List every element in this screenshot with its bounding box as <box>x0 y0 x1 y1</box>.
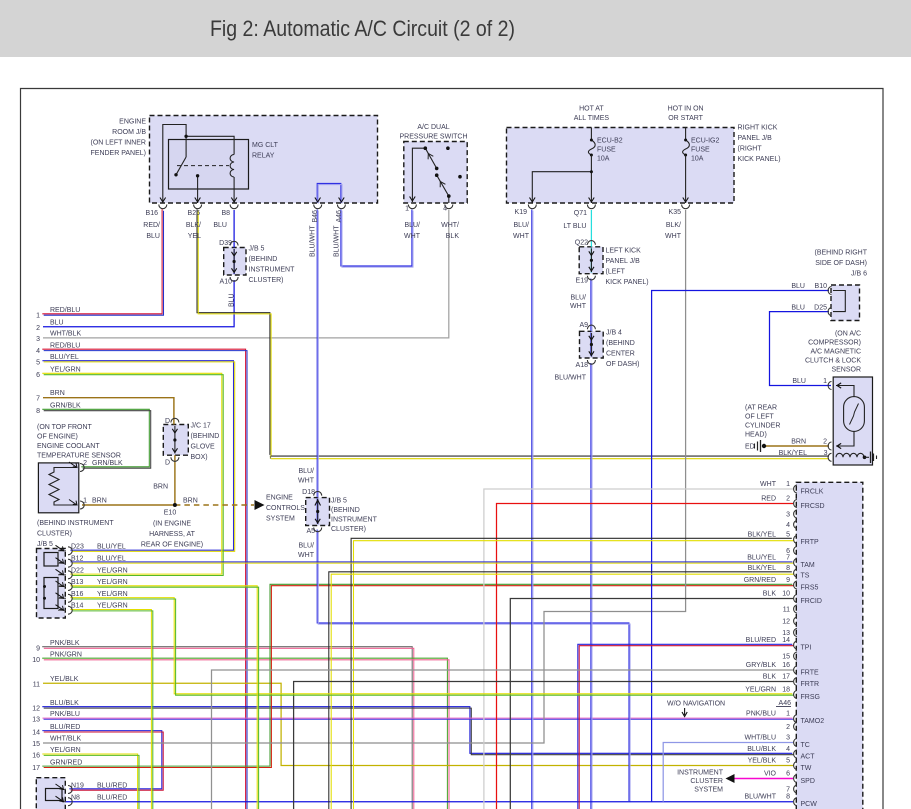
svg-text:GRN/RED: GRN/RED <box>50 759 82 766</box>
svg-text:17: 17 <box>782 674 790 681</box>
svg-text:Q71: Q71 <box>574 210 587 217</box>
svg-text:4: 4 <box>443 206 447 213</box>
svg-text:7: 7 <box>786 787 790 794</box>
svg-text:RED/: RED/ <box>143 222 160 229</box>
svg-text:GRN/RED: GRN/RED <box>744 577 776 584</box>
svg-text:(BEHIND: (BEHIND <box>249 256 278 263</box>
svg-text:D18: D18 <box>302 489 315 496</box>
svg-text:2: 2 <box>823 439 827 446</box>
svg-text:HARNESS, AT: HARNESS, AT <box>149 531 195 538</box>
svg-text:J/C 17: J/C 17 <box>191 423 211 430</box>
svg-text:13: 13 <box>782 630 790 637</box>
svg-text:10A: 10A <box>691 156 704 163</box>
svg-text:1: 1 <box>823 378 827 385</box>
svg-text:N19: N19 <box>71 783 84 790</box>
svg-text:B13: B13 <box>71 579 84 586</box>
svg-text:WHT: WHT <box>665 233 682 240</box>
svg-text:WHT/: WHT/ <box>441 222 459 229</box>
svg-text:FRTE: FRTE <box>801 670 819 677</box>
svg-text:B10: B10 <box>815 283 828 290</box>
svg-text:BLU: BLU <box>791 283 805 290</box>
svg-text:Fig 2: Automatic A/C Circuit (: Fig 2: Automatic A/C Circuit (2 of 2) <box>210 16 515 41</box>
svg-text:BLU/RED: BLU/RED <box>746 637 776 644</box>
svg-text:BLU: BLU <box>791 305 805 312</box>
svg-text:ACT: ACT <box>801 754 816 761</box>
svg-text:A9: A9 <box>579 322 588 329</box>
svg-text:YEL/GRN: YEL/GRN <box>97 579 128 586</box>
svg-text:(RIGHT: (RIGHT <box>738 146 763 153</box>
svg-text:BLK: BLK <box>446 233 460 240</box>
svg-text:SPD: SPD <box>801 778 815 785</box>
svg-text:A/C MAGNETIC: A/C MAGNETIC <box>810 349 861 356</box>
svg-text:BLU: BLU <box>229 293 236 307</box>
svg-text:10: 10 <box>782 591 790 598</box>
svg-text:5: 5 <box>786 532 790 539</box>
svg-text:1: 1 <box>83 498 87 505</box>
svg-text:RELAY: RELAY <box>252 153 275 160</box>
svg-text:4: 4 <box>786 522 790 529</box>
svg-text:OF ENGINE): OF ENGINE) <box>37 434 78 441</box>
svg-text:3: 3 <box>786 512 790 519</box>
svg-text:YEL/GRN: YEL/GRN <box>50 367 81 374</box>
svg-text:(BEHIND: (BEHIND <box>331 507 360 514</box>
svg-text:KICK PANEL): KICK PANEL) <box>738 156 781 163</box>
svg-text:16: 16 <box>32 753 40 760</box>
svg-text:RED/BLU: RED/BLU <box>50 342 80 349</box>
svg-text:INSTRUMENT: INSTRUMENT <box>331 517 378 524</box>
svg-text:BLK: BLK <box>763 674 777 681</box>
svg-text:SYSTEM: SYSTEM <box>694 787 723 794</box>
svg-text:OF LEFT: OF LEFT <box>745 414 775 421</box>
svg-text:BLU/BLK: BLU/BLK <box>50 700 79 707</box>
svg-text:WHT: WHT <box>570 303 587 310</box>
svg-text:BRN: BRN <box>92 498 107 505</box>
svg-text:B12: B12 <box>71 556 84 563</box>
svg-text:VIO: VIO <box>764 771 777 778</box>
svg-text:BLU/: BLU/ <box>298 543 314 550</box>
svg-text:BLK/YEL: BLK/YEL <box>748 532 777 539</box>
svg-text:FUSE: FUSE <box>597 147 616 154</box>
svg-text:B16: B16 <box>146 210 159 217</box>
svg-text:7: 7 <box>786 555 790 562</box>
svg-text:BLK/: BLK/ <box>666 222 681 229</box>
svg-text:CLUTCH & LOCK: CLUTCH & LOCK <box>805 358 861 365</box>
svg-text:CYLINDER: CYLINDER <box>745 423 780 430</box>
svg-text:CLUSTER): CLUSTER) <box>249 277 284 284</box>
svg-text:BLU/YEL: BLU/YEL <box>97 543 126 550</box>
svg-text:ENGINE: ENGINE <box>266 495 293 502</box>
svg-text:8: 8 <box>786 794 790 801</box>
svg-text:GRN/BLK: GRN/BLK <box>50 403 81 410</box>
svg-text:PANEL J/B: PANEL J/B <box>606 258 641 265</box>
svg-text:BLU/WHT: BLU/WHT <box>745 794 777 801</box>
svg-text:YEL/GRN: YEL/GRN <box>97 567 128 574</box>
svg-text:WHT/BLK: WHT/BLK <box>50 330 81 337</box>
svg-text:ALL TIMES: ALL TIMES <box>574 115 610 122</box>
svg-text:D22: D22 <box>71 567 84 574</box>
svg-text:YEL/BLK: YEL/BLK <box>748 758 777 765</box>
svg-text:CLUSTER: CLUSTER <box>690 778 723 785</box>
svg-text:BLK/YEL: BLK/YEL <box>779 450 808 457</box>
svg-text:FRCLK: FRCLK <box>801 489 824 496</box>
svg-text:TC: TC <box>801 742 810 749</box>
svg-text:A46: A46 <box>336 210 343 223</box>
svg-text:6: 6 <box>36 372 40 379</box>
svg-text:WHT/BLK: WHT/BLK <box>50 736 81 743</box>
svg-text:1: 1 <box>405 206 409 213</box>
svg-text:PRESSURE SWITCH: PRESSURE SWITCH <box>399 134 467 141</box>
svg-text:J/B 5: J/B 5 <box>331 498 347 505</box>
svg-text:PCW: PCW <box>801 801 818 808</box>
svg-text:D: D <box>165 418 170 425</box>
svg-text:A5: A5 <box>306 528 315 535</box>
svg-text:KICK PANEL): KICK PANEL) <box>606 279 649 286</box>
svg-text:SENSOR: SENSOR <box>831 367 861 374</box>
svg-text:9: 9 <box>36 646 40 653</box>
svg-text:4: 4 <box>786 746 790 753</box>
svg-text:11: 11 <box>783 607 790 614</box>
svg-text:A18: A18 <box>576 362 589 369</box>
svg-text:REAR OF ENGINE): REAR OF ENGINE) <box>141 542 203 549</box>
svg-text:D23: D23 <box>71 543 84 550</box>
svg-text:BLU: BLU <box>50 319 64 326</box>
svg-text:COMPRESSOR): COMPRESSOR) <box>808 340 861 347</box>
svg-text:B8: B8 <box>221 210 230 217</box>
svg-text:BLK: BLK <box>763 591 777 598</box>
svg-text:ED: ED <box>745 444 755 451</box>
svg-text:SIDE OF DASH): SIDE OF DASH) <box>815 260 867 267</box>
svg-text:TAMO2: TAMO2 <box>801 718 825 725</box>
svg-text:(ON LEFT INNER: (ON LEFT INNER <box>91 140 147 147</box>
svg-text:K35: K35 <box>669 209 682 216</box>
svg-text:GRN/BLK: GRN/BLK <box>92 460 123 467</box>
svg-text:BLU/WHT: BLU/WHT <box>555 375 587 382</box>
svg-text:BLK/YEL: BLK/YEL <box>748 565 777 572</box>
svg-text:WHT: WHT <box>513 233 530 240</box>
svg-text:TAM: TAM <box>801 562 815 569</box>
svg-text:ECU-IG2: ECU-IG2 <box>691 138 720 145</box>
svg-text:BLK/: BLK/ <box>186 222 201 229</box>
svg-text:J/B 6: J/B 6 <box>851 271 867 278</box>
svg-text:16: 16 <box>782 662 790 669</box>
svg-text:Q22: Q22 <box>575 240 588 247</box>
svg-text:BLU/RED: BLU/RED <box>97 783 127 790</box>
svg-text:FRTP: FRTP <box>801 539 819 546</box>
svg-text:FRTR: FRTR <box>801 681 820 688</box>
svg-text:CLUSTER): CLUSTER) <box>37 531 72 538</box>
svg-text:CENTER: CENTER <box>606 351 635 358</box>
svg-text:2: 2 <box>83 460 87 467</box>
svg-text:BLU/: BLU/ <box>298 468 314 475</box>
svg-text:17: 17 <box>32 765 40 772</box>
svg-text:BRN: BRN <box>183 498 198 505</box>
svg-text:7: 7 <box>36 396 40 403</box>
svg-text:A10: A10 <box>220 279 233 286</box>
svg-text:GRY/BLK: GRY/BLK <box>746 662 777 669</box>
svg-text:A46: A46 <box>779 700 792 707</box>
svg-text:BLU/RED: BLU/RED <box>50 724 80 731</box>
svg-text:FRSG: FRSG <box>801 694 820 701</box>
svg-text:YEL/GRN: YEL/GRN <box>50 747 81 754</box>
svg-text:ECU-B2: ECU-B2 <box>597 138 623 145</box>
svg-text:WHT: WHT <box>760 481 777 488</box>
svg-text:(ON A/C: (ON A/C <box>835 331 861 338</box>
svg-text:J/B 5: J/B 5 <box>37 541 53 548</box>
svg-text:PNK/GRN: PNK/GRN <box>50 652 82 659</box>
svg-text:BRN: BRN <box>153 484 168 491</box>
svg-text:RED: RED <box>761 496 776 503</box>
svg-text:5: 5 <box>786 758 790 765</box>
svg-text:RIGHT KICK: RIGHT KICK <box>738 125 778 132</box>
svg-text:WHT: WHT <box>404 233 421 240</box>
svg-text:15: 15 <box>782 654 790 661</box>
svg-text:(BEHIND: (BEHIND <box>191 433 220 440</box>
svg-text:ENGINE COOLANT: ENGINE COOLANT <box>37 443 100 450</box>
svg-text:BLU/WHT: BLU/WHT <box>334 225 341 257</box>
svg-text:PNK/BLU: PNK/BLU <box>746 711 776 718</box>
svg-text:WHT: WHT <box>298 478 315 485</box>
svg-text:10: 10 <box>32 657 40 664</box>
svg-text:13: 13 <box>32 717 40 724</box>
svg-text:5: 5 <box>36 359 40 366</box>
svg-text:BRN: BRN <box>50 390 65 397</box>
svg-text:FRCID: FRCID <box>801 598 822 605</box>
svg-text:N8: N8 <box>71 795 80 802</box>
svg-text:2: 2 <box>786 724 790 731</box>
svg-text:B46: B46 <box>312 210 319 223</box>
svg-text:CONTROLS: CONTROLS <box>266 505 305 512</box>
svg-text:TW: TW <box>801 765 812 772</box>
svg-text:OF DASH): OF DASH) <box>606 361 639 368</box>
svg-text:BLU: BLU <box>792 378 806 385</box>
svg-text:12: 12 <box>782 619 790 626</box>
svg-text:BLU: BLU <box>146 233 160 240</box>
svg-text:(LEFT: (LEFT <box>606 269 626 276</box>
svg-text:(BEHIND: (BEHIND <box>606 340 635 347</box>
svg-text:GLOVE: GLOVE <box>191 444 215 451</box>
svg-text:10A: 10A <box>597 156 610 163</box>
svg-text:PNK/BLU: PNK/BLU <box>50 711 80 718</box>
svg-text:BLU/: BLU/ <box>404 222 420 229</box>
svg-text:ENGINE: ENGINE <box>119 119 146 126</box>
svg-text:8: 8 <box>786 565 790 572</box>
svg-text:PNK/BLK: PNK/BLK <box>50 640 80 647</box>
svg-text:BRN: BRN <box>791 439 806 446</box>
svg-text:12: 12 <box>32 705 40 712</box>
svg-text:3: 3 <box>786 735 790 742</box>
svg-text:YEL/GRN: YEL/GRN <box>97 603 128 610</box>
svg-text:D25: D25 <box>814 305 827 312</box>
svg-text:BLU/WHT: BLU/WHT <box>310 225 317 257</box>
svg-text:3: 3 <box>36 336 40 343</box>
svg-text:18: 18 <box>782 687 790 694</box>
svg-text:J/B 5: J/B 5 <box>249 246 265 253</box>
svg-text:LEFT KICK: LEFT KICK <box>606 248 642 255</box>
svg-text:B14: B14 <box>71 603 84 610</box>
svg-text:WHT/BLU: WHT/BLU <box>745 735 777 742</box>
svg-text:(BEHIND RIGHT: (BEHIND RIGHT <box>815 250 868 257</box>
svg-text:1: 1 <box>786 711 790 718</box>
svg-text:FENDER PANEL): FENDER PANEL) <box>91 150 147 157</box>
svg-text:YEL/BLK: YEL/BLK <box>50 676 79 683</box>
svg-text:(AT REAR: (AT REAR <box>745 405 777 412</box>
svg-text:(IN ENGINE: (IN ENGINE <box>153 521 191 528</box>
svg-text:OR START: OR START <box>668 115 703 122</box>
svg-text:YEL/GRN: YEL/GRN <box>97 591 128 598</box>
svg-text:FUSE: FUSE <box>691 147 710 154</box>
svg-text:BLU/: BLU/ <box>570 295 586 302</box>
svg-text:BOX): BOX) <box>191 454 208 461</box>
svg-text:(ON TOP FRONT: (ON TOP FRONT <box>37 424 93 431</box>
svg-text:BLU/: BLU/ <box>513 222 529 229</box>
svg-text:RED/BLU: RED/BLU <box>50 307 80 314</box>
svg-text:2: 2 <box>786 496 790 503</box>
svg-text:15: 15 <box>32 741 40 748</box>
svg-text:J/B 4: J/B 4 <box>606 330 622 337</box>
svg-text:TS: TS <box>801 573 810 580</box>
svg-text:D: D <box>165 460 170 467</box>
svg-text:TEMPERATURE SENSOR: TEMPERATURE SENSOR <box>37 453 121 460</box>
svg-text:B16: B16 <box>71 591 84 598</box>
svg-text:BLU/YEL: BLU/YEL <box>747 555 776 562</box>
svg-text:BLU/RED: BLU/RED <box>97 795 127 802</box>
svg-text:HEAD): HEAD) <box>745 432 767 439</box>
svg-text:BLU: BLU <box>213 222 227 229</box>
svg-text:HOT AT: HOT AT <box>579 106 604 113</box>
svg-text:FRS5: FRS5 <box>801 585 819 592</box>
svg-text:A/C DUAL: A/C DUAL <box>417 124 449 131</box>
svg-text:11: 11 <box>33 681 40 688</box>
svg-text:TPI: TPI <box>801 645 812 652</box>
svg-text:INSTRUMENT: INSTRUMENT <box>677 770 724 777</box>
svg-text:8: 8 <box>36 408 40 415</box>
svg-text:2: 2 <box>36 325 40 332</box>
svg-text:B26: B26 <box>188 210 201 217</box>
svg-text:SYSTEM: SYSTEM <box>266 516 295 523</box>
svg-text:HOT IN ON: HOT IN ON <box>668 106 704 113</box>
svg-text:MG CLT: MG CLT <box>252 142 279 149</box>
svg-text:E19: E19 <box>576 278 589 285</box>
svg-text:K19: K19 <box>515 209 528 216</box>
svg-text:9: 9 <box>786 577 790 584</box>
svg-text:CLUSTER): CLUSTER) <box>331 526 366 533</box>
svg-text:WHT: WHT <box>298 552 315 559</box>
svg-text:INSTRUMENT: INSTRUMENT <box>249 267 296 274</box>
svg-text:YEL: YEL <box>188 233 201 240</box>
svg-text:1: 1 <box>786 481 790 488</box>
svg-text:3: 3 <box>824 450 828 457</box>
svg-text:PANEL J/B: PANEL J/B <box>738 135 773 142</box>
svg-text:BLU/YEL: BLU/YEL <box>97 556 126 563</box>
svg-text:14: 14 <box>782 637 790 644</box>
svg-text:1: 1 <box>36 313 40 320</box>
svg-text:(BEHIND INSTRUMENT: (BEHIND INSTRUMENT <box>37 520 114 527</box>
svg-text:LT BLU: LT BLU <box>563 223 586 230</box>
svg-text:D39: D39 <box>219 240 232 247</box>
svg-text:YEL/GRN: YEL/GRN <box>745 687 776 694</box>
svg-text:14: 14 <box>32 729 40 736</box>
svg-text:FRCSD: FRCSD <box>801 503 825 510</box>
svg-text:ROOM J/B: ROOM J/B <box>112 129 146 136</box>
svg-text:6: 6 <box>786 771 790 778</box>
svg-text:BLU/BLK: BLU/BLK <box>747 746 776 753</box>
svg-text:W/O NAVIGATION: W/O NAVIGATION <box>667 701 725 708</box>
svg-text:4: 4 <box>36 348 40 355</box>
svg-text:E10: E10 <box>164 510 177 517</box>
svg-text:BLU/YEL: BLU/YEL <box>50 354 79 361</box>
